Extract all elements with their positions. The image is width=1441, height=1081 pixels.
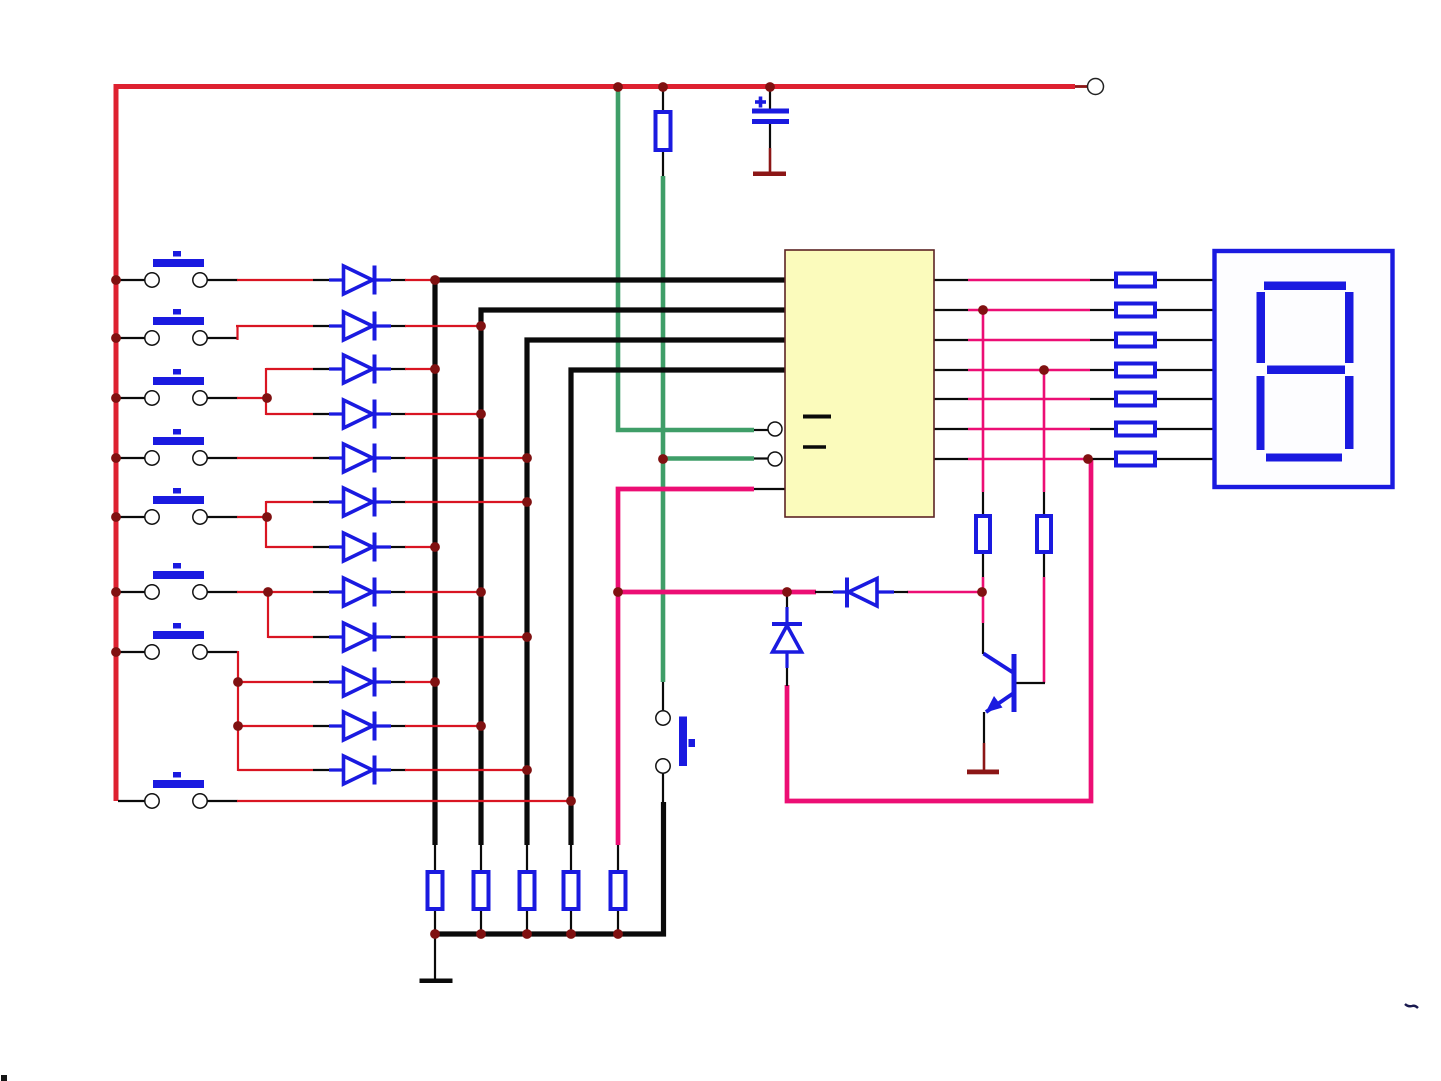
diode D9 — [329, 623, 391, 652]
wire emitter feedback loop (magenta) — [787, 459, 1091, 801]
push button SW6 — [145, 563, 207, 599]
node junction (268,592) — [263, 587, 273, 597]
resistor R17 — [1037, 516, 1051, 552]
wire diode stubs row y=369 — [313, 368, 330, 370]
wire SW2 riser — [236, 325, 238, 340]
terminal VCC (open circle) — [1088, 79, 1104, 95]
resistor R4 segment — [1116, 364, 1155, 377]
display segment e — [1257, 376, 1265, 450]
IC U1 pin mark 1 — [803, 415, 831, 419]
node junction (481,726) — [476, 721, 486, 731]
wire diode stubs row y=547 — [313, 546, 330, 548]
IC U1 clock pin circle — [768, 422, 782, 436]
wire SW9 stubs — [662, 682, 664, 710]
node junction (527,934) — [522, 929, 532, 939]
wire D4 out to column2 — [405, 413, 481, 415]
node junction (435,547) — [430, 542, 440, 552]
wire node to D9 — [268, 636, 313, 638]
wire node to D4 — [266, 413, 313, 415]
node junction (435,934) — [430, 929, 440, 939]
wire segment line b (magenta) — [968, 309, 1090, 312]
diode D10 — [329, 668, 391, 697]
wire diode stubs row y=592 — [313, 591, 330, 593]
IC U1 reset pin circle — [768, 452, 782, 466]
wire button stubs row y=517 — [118, 516, 146, 518]
wire keypad column 2 (thick black) — [481, 310, 785, 845]
display segment d — [1266, 454, 1342, 462]
ground GND2 under capacitor (dark red) — [769, 148, 772, 172]
wire SW6 to D8 — [237, 591, 313, 593]
wire SW7 riser — [237, 651, 239, 771]
wire resistor stub column x=527 — [526, 845, 528, 871]
resistor R7 segment — [1116, 453, 1155, 466]
resistor R12 row pulldown — [520, 872, 535, 909]
node junction (571,934) — [566, 929, 576, 939]
node junction (116,458) — [111, 453, 121, 463]
wire segment line d (magenta) — [968, 369, 1090, 372]
diode D6 — [329, 488, 391, 517]
wire segment line c (magenta) — [968, 339, 1090, 342]
wire D7 out to column1 — [405, 546, 435, 548]
resistor R1 segment — [1116, 274, 1155, 287]
display segment b — [1345, 292, 1354, 363]
node junction (527,637) — [522, 632, 532, 642]
wire D11 out to column2 — [405, 725, 481, 727]
node junction (435,682) — [430, 677, 440, 687]
ground GND1 bottom left — [434, 934, 436, 979]
wire SW3 to node — [237, 397, 267, 399]
wire D5 out to column3 — [405, 457, 527, 459]
wire keypad column 3 (thick black) — [527, 340, 785, 845]
push button SW4 — [145, 429, 207, 465]
push button SW8 — [145, 772, 207, 808]
node junction (116,592) — [111, 587, 121, 597]
wire IC pin P to keypad column 5 (magenta) — [618, 489, 754, 592]
node junction (527,458) — [522, 453, 532, 463]
resistor R16 — [976, 516, 990, 552]
node junction (618,592) — [613, 587, 623, 597]
resistor R10 row pulldown — [428, 872, 443, 909]
wire IC right pin stub row y=399 — [934, 398, 968, 400]
wire node to D3 — [266, 368, 313, 370]
resistor R8 pull-up — [656, 112, 671, 150]
node junction (481,934) — [476, 929, 486, 939]
node junction (435,280) — [430, 275, 440, 285]
diode D3 — [329, 355, 391, 384]
diode D7 — [329, 533, 391, 562]
diode D4 — [329, 400, 391, 429]
push button SW7 — [145, 623, 207, 659]
wire SW2 top to D2 — [236, 325, 313, 327]
wire SW8 to column4 — [237, 800, 571, 802]
stray speck bottom left — [1, 1075, 7, 1081]
node junction (983,310) — [978, 305, 988, 315]
diode D8 — [329, 578, 391, 607]
wire SW5 riser — [265, 501, 267, 548]
diode D13 (horizontal, pointing left) — [833, 578, 894, 608]
wire V+ bus top and left (thick red) — [116, 87, 1075, 802]
resistor R5 segment — [1116, 393, 1155, 406]
wire D8 out to column2 — [405, 591, 481, 593]
wire RN stubs transistor resistors — [982, 492, 984, 514]
diode D11 — [329, 712, 391, 741]
diode D12 — [329, 756, 391, 785]
wire node to D12 — [238, 769, 313, 771]
wire diode stubs row y=414 — [313, 413, 330, 415]
wire node to D11 — [238, 725, 313, 727]
node junction (435,369) — [430, 364, 440, 374]
wire button stubs row y=458 — [118, 457, 146, 459]
wire IC right pin stub row y=429 — [934, 428, 968, 430]
wire D2 out to column2 — [405, 325, 481, 327]
wire bottom resistor bus to key ground (thick black) — [435, 802, 664, 934]
wire C1 bottom lead — [769, 124, 771, 148]
wire diode stubs row y=770 — [313, 769, 330, 771]
wire button stubs row y=398 — [118, 397, 146, 399]
wire diode stubs row y=637 — [313, 636, 330, 638]
wire IC right pin stub row y=340 — [934, 339, 968, 341]
wire diode stubs row y=326 — [313, 325, 330, 327]
wire clock net green to IC pin — [618, 89, 754, 430]
push button SW9 (vertical) — [656, 711, 695, 773]
node junction (116,280) — [111, 275, 121, 285]
diode D2 — [329, 312, 391, 341]
capacitor C1 polarized — [752, 109, 789, 114]
7-segment display DS1 outline — [1215, 251, 1393, 487]
wire D14 stubs vertical — [786, 594, 788, 608]
node junction (116,517) — [111, 512, 121, 522]
transistor Q1 (PNP) — [984, 654, 1017, 713]
node junction (618,934) — [613, 929, 623, 939]
display segment c — [1345, 376, 1354, 449]
wire base resistor top (magenta) — [982, 310, 985, 492]
node junction (116,652) — [111, 647, 121, 657]
node junction (481,592) — [476, 587, 486, 597]
wire reset net green vertical — [661, 176, 666, 682]
wire keypad column 5 (magenta) — [616, 592, 621, 845]
wire diode stubs row y=502 — [313, 501, 330, 503]
wire D6 out to column3 — [405, 501, 527, 503]
wire R8 leads top — [662, 89, 664, 112]
stray mark bottom right — [1405, 1004, 1418, 1008]
wire segment line e (magenta) — [968, 398, 1090, 401]
resistor R11 row pulldown — [474, 872, 489, 909]
wire base resistor bottom (magenta) — [1043, 370, 1046, 492]
wire magenta node row to diode D13 — [616, 590, 816, 595]
wire keypad column 1 (thick black) — [435, 280, 785, 845]
diode D5 — [329, 444, 391, 473]
wire IC right pin stub row y=310 — [934, 309, 968, 311]
wire base lead (magenta) — [1043, 577, 1046, 683]
node junction (1044,370) — [1039, 365, 1049, 375]
node junction (116,398) — [111, 393, 121, 403]
wire SW1 to D1 — [237, 279, 313, 281]
wire SW5 to node — [237, 516, 267, 518]
node junction (787,592) — [782, 587, 792, 597]
wire resistor stub column x=481 — [480, 845, 482, 871]
wire IC right pin stub row y=459 — [934, 458, 968, 460]
node junction (116,338) — [111, 333, 121, 343]
diode D1 — [329, 266, 391, 295]
wire SW4 to D5 — [237, 457, 313, 459]
node junction (663,459) — [658, 454, 668, 464]
wire D13 to transistor collector node (magenta) — [907, 591, 982, 594]
node junction (238,682) — [233, 677, 243, 687]
node junction (267,398) — [262, 393, 272, 403]
node junction (527,770) — [522, 765, 532, 775]
wire diode stubs row y=726 — [313, 725, 330, 727]
node junction (267,517) — [262, 512, 272, 522]
wire node to D6 — [266, 501, 313, 503]
wire segment line f (magenta) — [968, 428, 1090, 431]
wire reset net green to IC pin — [663, 456, 754, 461]
wire SW6 riser — [267, 592, 269, 638]
wire IC right pin stub row y=370 — [934, 369, 968, 371]
wire D3 out to column1 — [405, 368, 435, 370]
diode D14 (vertical, pointing up) — [772, 607, 802, 668]
display segment f — [1257, 292, 1266, 363]
wire diode stubs row y=682 — [313, 681, 330, 683]
push button SW3 — [145, 369, 207, 405]
resistor R13 row pulldown — [564, 872, 579, 909]
wire collector node (magenta) — [982, 577, 985, 623]
wire emitter lead black — [983, 712, 985, 743]
node junction (527,502) — [522, 497, 532, 507]
wire D9 out to column3 — [405, 636, 527, 638]
resistor R6 segment — [1116, 423, 1155, 436]
resistor R14 row pulldown — [611, 872, 626, 909]
wire collector lead black — [982, 623, 984, 654]
wire base lead black — [1015, 682, 1045, 684]
wire terminal stub (dark red) — [1075, 85, 1088, 88]
node junction (982,592) — [977, 587, 987, 597]
wire resistor stub column x=571 — [570, 845, 572, 871]
wire diode stubs row y=458 — [313, 457, 330, 459]
push button SW1 — [145, 251, 207, 287]
IC U1 pin mark 2 — [803, 445, 826, 448]
node junction (618,87) — [613, 82, 623, 92]
wire keypad column 4 (thick black) — [571, 370, 785, 845]
wire segment line a (magenta) — [968, 279, 1090, 282]
wire resistor stub column x=618 — [617, 845, 619, 871]
wire D12 out to column3 — [405, 769, 527, 771]
push button SW5 — [145, 488, 207, 524]
wire D1 out to column1 — [405, 279, 435, 281]
node junction (238,726) — [233, 721, 243, 731]
wire resistor stub column x=435 — [434, 845, 436, 871]
node junction (481,326) — [476, 321, 486, 331]
wire node to D7 — [266, 546, 313, 548]
display segment g — [1267, 366, 1345, 375]
node junction (1088,459) — [1083, 454, 1093, 464]
wire segment line g (magenta) — [968, 458, 1090, 461]
wire diode stubs row y=280 — [313, 279, 330, 281]
ground GND3 under transistor (dark red) — [983, 743, 986, 770]
wire button stubs row y=652 — [118, 651, 146, 653]
resistor R2 segment — [1116, 304, 1155, 317]
wire button stubs row y=338 — [118, 337, 146, 339]
wire IC left pin stubs — [754, 429, 769, 431]
wire IC right pin stub row y=280 — [934, 279, 968, 281]
wire D10 out to column1 — [405, 681, 435, 683]
node junction (481,414) — [476, 409, 486, 419]
wire C1 top lead — [769, 89, 771, 109]
node junction (571,801) — [566, 796, 576, 806]
display segment a — [1264, 282, 1346, 291]
wire button stubs row y=280 — [118, 279, 146, 281]
wire D13 stubs horizontal — [815, 591, 833, 593]
wire button stubs row y=592 — [118, 591, 146, 593]
wire node to D10 — [238, 681, 313, 683]
wire SW3 riser — [265, 368, 267, 415]
IC U1 (keypad encoder / display driver) — [785, 250, 934, 517]
node junction (770,87) — [765, 82, 775, 92]
resistor R3 segment — [1116, 334, 1155, 347]
wire button stubs row y=801 — [118, 800, 146, 802]
push button SW2 — [145, 309, 207, 345]
node junction (663,87) — [658, 82, 668, 92]
